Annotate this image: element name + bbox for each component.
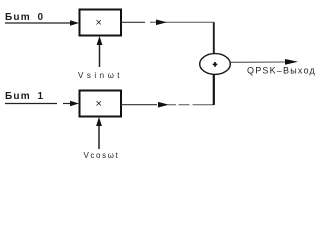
wire input bit0 — [5, 20, 79, 26]
svg-text:QPSK–Выход: QPSK–Выход — [247, 66, 316, 76]
label QPSK output — [247, 66, 316, 76]
multiplier M1 — [80, 10, 122, 36]
svg-text:Бum: Бum — [5, 91, 31, 102]
svg-text:Vsinωt: Vsinωt — [78, 71, 123, 80]
summer S1 — [200, 54, 231, 75]
multiplier M2 — [80, 91, 122, 117]
wire summer top drop (vertical) — [213, 22, 215, 54]
svg-text:×: × — [96, 98, 102, 110]
svg-text:×: × — [96, 17, 102, 29]
label V cos wt — [84, 151, 120, 160]
svg-text:1: 1 — [38, 91, 44, 102]
wire input bit1 — [5, 101, 79, 107]
label V sin wt — [78, 71, 123, 80]
wire M1 to summer (horizontal) — [121, 20, 214, 26]
node label Bit 0 — [5, 12, 44, 23]
wire carrier cos into M2 — [96, 117, 102, 149]
svg-text:Vcosωt: Vcosωt — [84, 151, 120, 160]
svg-text:Бum: Бum — [5, 12, 31, 23]
node label Bit 1 — [5, 91, 44, 102]
wire summer bottom riser (vertical) — [213, 75, 215, 105]
svg-text:0: 0 — [38, 12, 44, 23]
wire M2 to summer (horizontal) — [121, 102, 214, 108]
wire summer output — [231, 59, 299, 65]
wire carrier sin into M1 — [97, 36, 103, 67]
